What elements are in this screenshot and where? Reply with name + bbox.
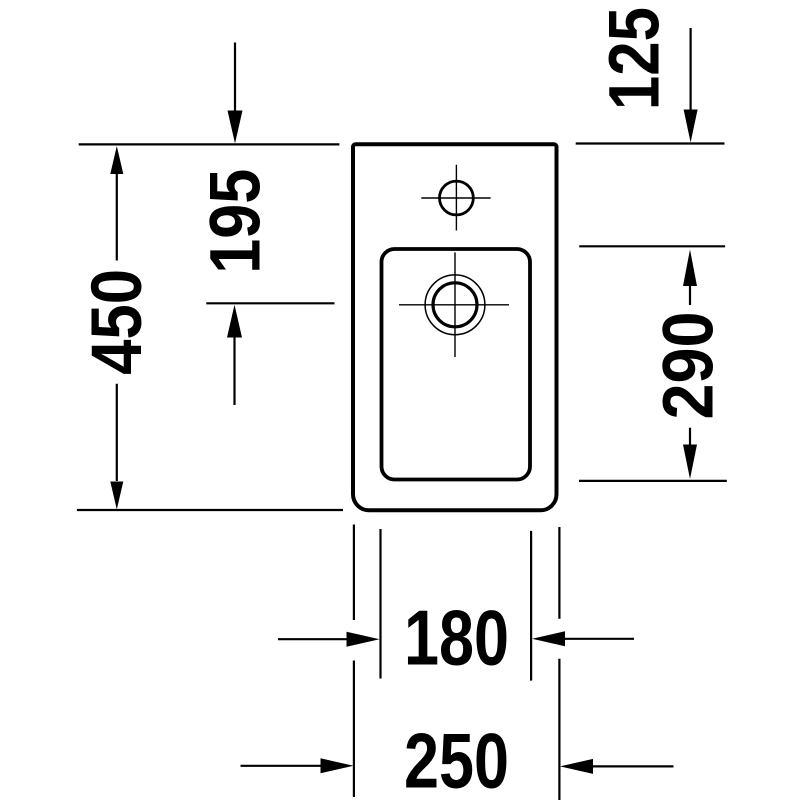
dim line drain-center level left xyxy=(206,302,334,304)
dim 290 upper arrow xyxy=(689,285,691,305)
extension line below bowl left edge (180) xyxy=(379,529,381,679)
svg-text:290: 290 xyxy=(649,312,729,420)
drain outer circle xyxy=(425,275,485,335)
extension line below body right edge (250) xyxy=(558,527,560,619)
dim 250 left arrow xyxy=(241,765,323,767)
dim 125 arrow (down toward body top right) xyxy=(689,28,691,111)
svg-text:180: 180 xyxy=(404,595,509,681)
faucet hole circle xyxy=(440,181,474,215)
dim 180 right arrow xyxy=(565,638,634,640)
dim 195 top arrow (down toward body top) xyxy=(234,43,236,113)
dim 195 bottom arrow (up toward drain level) xyxy=(233,336,235,405)
svg-text:450: 450 xyxy=(77,269,157,375)
drain inner circle xyxy=(433,283,477,327)
dim 250 right arrow xyxy=(593,765,674,767)
basin outer body outline xyxy=(353,144,557,510)
basin inner bowl outline xyxy=(382,249,531,480)
dim line top-left (at body top level) xyxy=(79,143,340,145)
dim line top-right (at body top level) xyxy=(576,142,725,144)
dim line bowl-top level right xyxy=(579,245,725,247)
faucet crosshair horizontal xyxy=(421,197,490,199)
dim line bottom-left (at body bottom level) xyxy=(77,509,343,511)
svg-text:195: 195 xyxy=(196,169,276,274)
dim line bowl-bottom level right xyxy=(579,480,727,482)
drain crosshair horizontal xyxy=(399,304,509,306)
dim 290 lower arrow xyxy=(689,428,691,446)
extension line below bowl right edge (180) xyxy=(530,531,532,681)
extension line below body left edge (250) xyxy=(353,525,355,621)
dim 450 upper arrow xyxy=(116,174,118,261)
dim 180 left arrow xyxy=(278,638,348,640)
drain crosshair vertical xyxy=(454,252,456,357)
dim 450 lower arrow xyxy=(116,384,118,481)
svg-text:125: 125 xyxy=(594,7,674,110)
svg-text:250: 250 xyxy=(404,719,509,800)
faucet crosshair vertical xyxy=(455,165,457,231)
